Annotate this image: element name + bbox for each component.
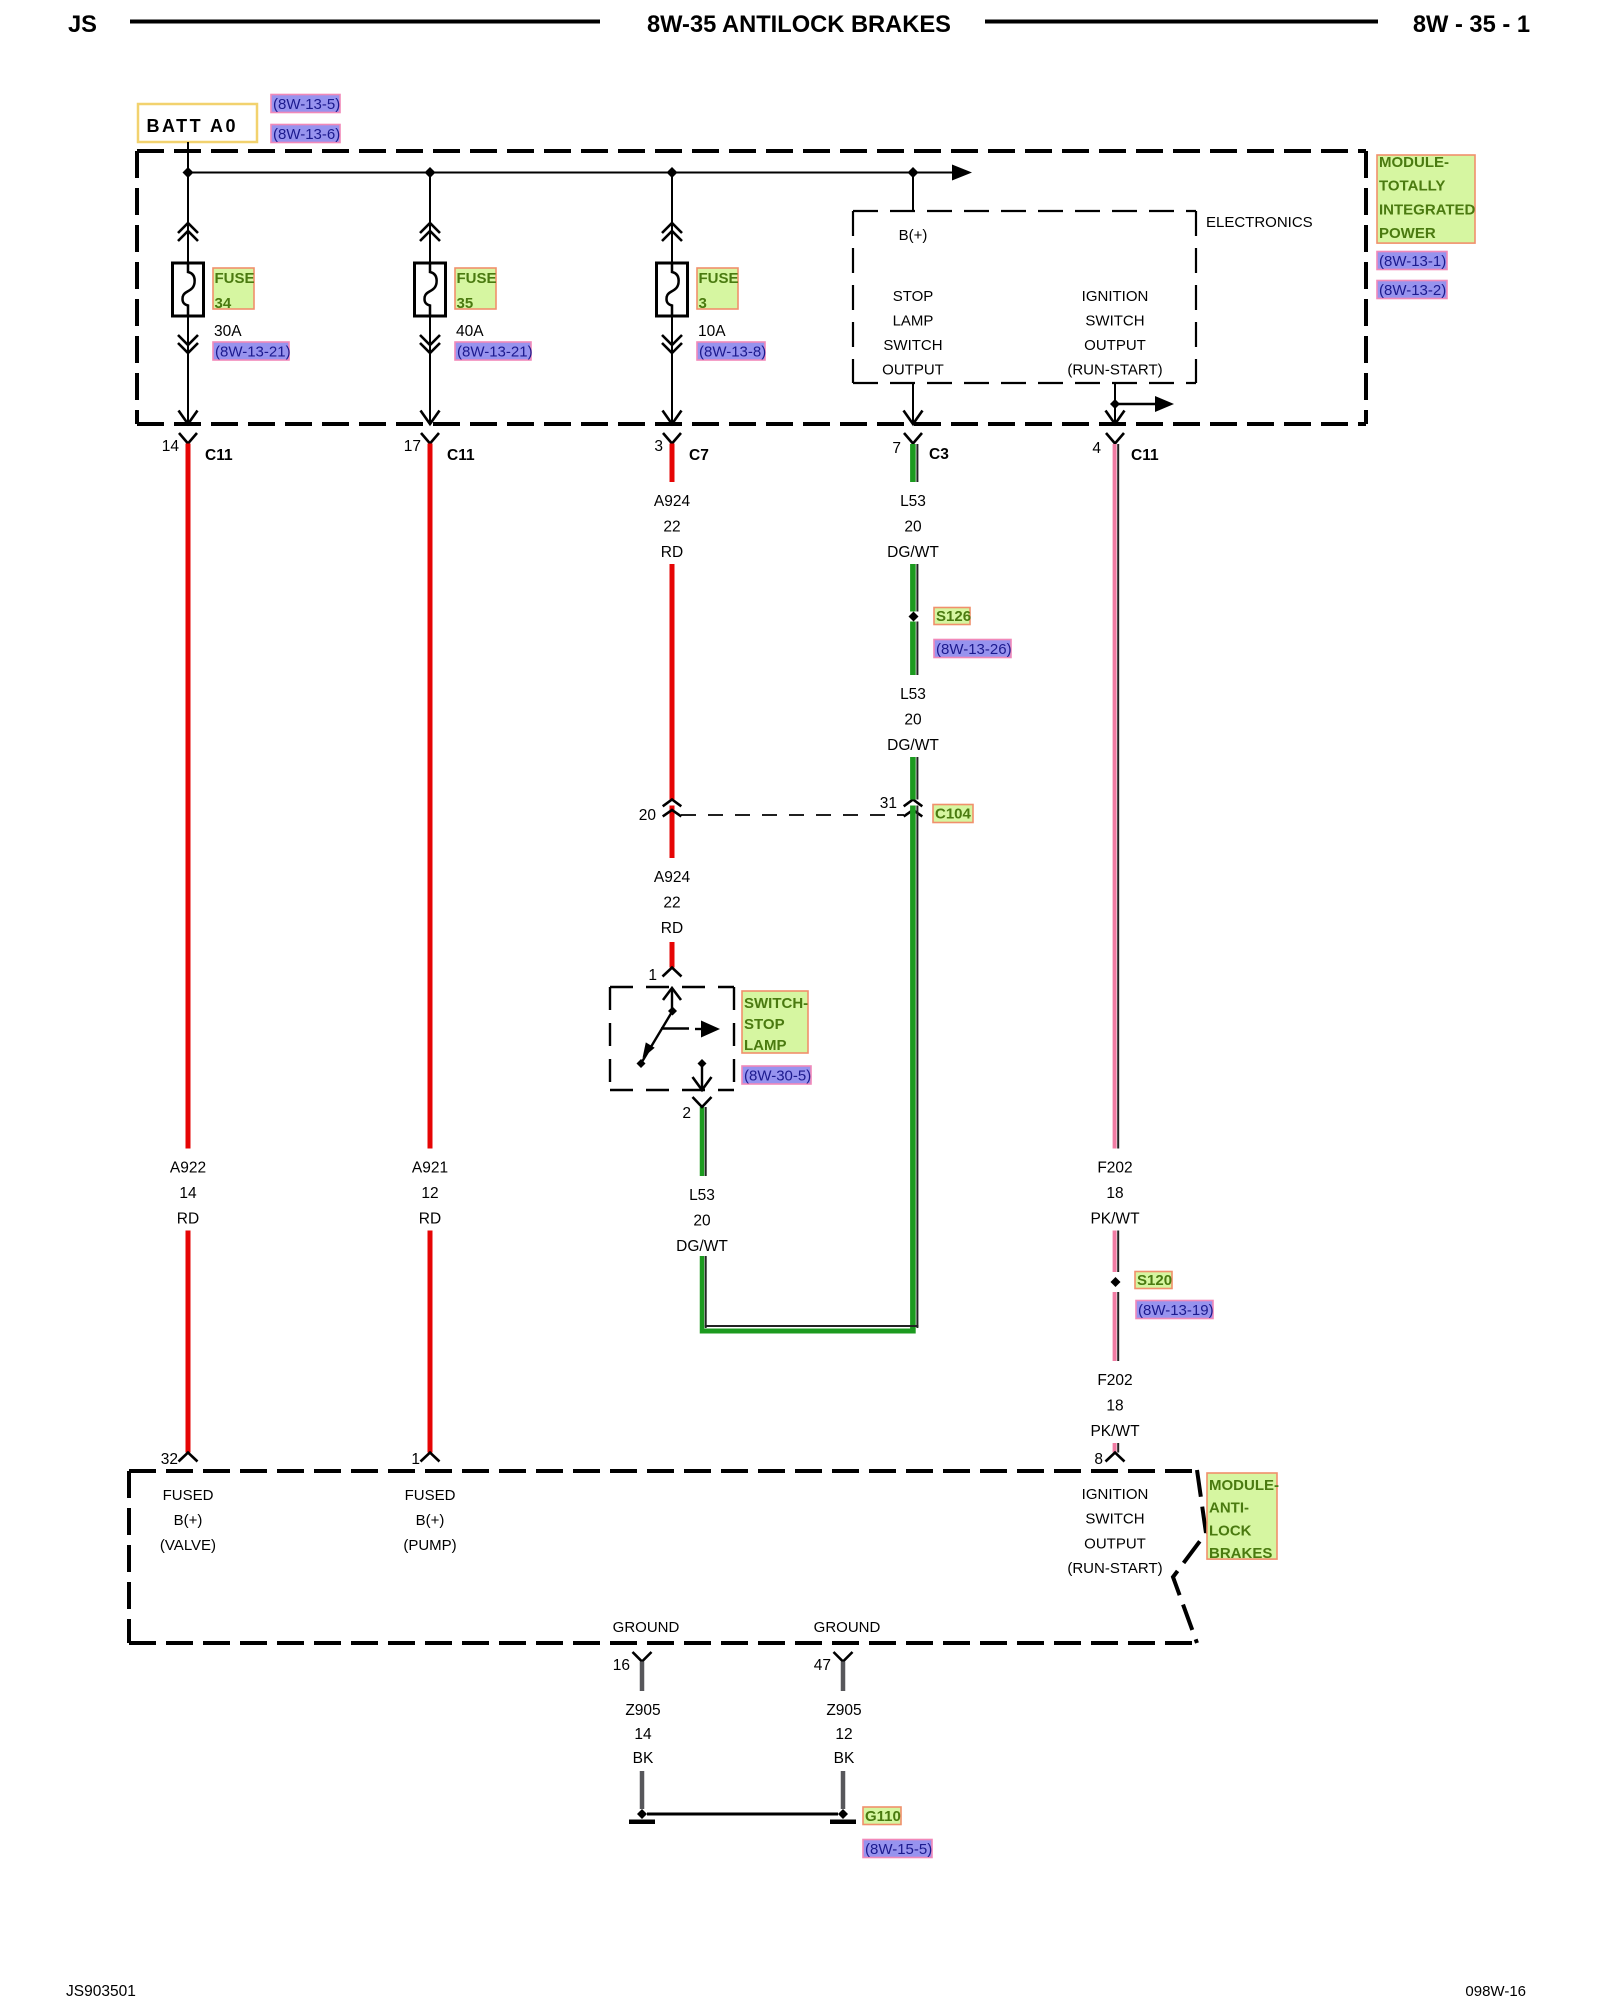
- svg-text:L53: L53: [689, 1187, 715, 1204]
- wire bus to electronics B(+): [912, 173, 914, 212]
- svg-text:MODULE-: MODULE-: [1209, 1477, 1279, 1494]
- svg-text:GROUND: GROUND: [814, 1619, 881, 1636]
- svg-text:RD: RD: [419, 1210, 441, 1227]
- svg-text:IGNITION: IGNITION: [1082, 1486, 1149, 1503]
- svg-text:DG/WT: DG/WT: [887, 544, 939, 561]
- svg-text:8: 8: [1094, 1451, 1103, 1468]
- svg-text:FUSE: FUSE: [699, 270, 739, 287]
- svg-text:C11: C11: [447, 447, 475, 464]
- svg-text:2: 2: [682, 1105, 691, 1122]
- connector pin 1 (ABS): [421, 1453, 440, 1462]
- wire battery to bus: [187, 142, 189, 173]
- label SWITCH-STOP LAMP: [742, 991, 808, 1053]
- svg-text:LOCK: LOCK: [1209, 1522, 1252, 1539]
- svg-text:(8W-15-5): (8W-15-5): [865, 1841, 932, 1858]
- junction node bus/fuse35: [425, 167, 436, 178]
- svg-text:BK: BK: [633, 1750, 654, 1767]
- arrowhead into TIPM edge: [663, 411, 682, 425]
- ground G110 label: [863, 1807, 901, 1825]
- svg-text:8W-35 ANTILOCK BRAKES: 8W-35 ANTILOCK BRAKES: [647, 12, 951, 38]
- svg-text:FUSED: FUSED: [405, 1487, 456, 1504]
- svg-text:20: 20: [693, 1212, 711, 1229]
- ref (8W-30-5): [742, 1066, 811, 1084]
- switch-stop lamp box (dashed): [610, 986, 734, 988]
- switch throw contact (right arrow): [661, 1027, 689, 1029]
- svg-text:RD: RD: [661, 920, 683, 937]
- svg-text:4: 4: [1092, 440, 1101, 457]
- switch contact arrow (common, pin 1): [671, 988, 673, 1008]
- svg-text:(8W-13-2): (8W-13-2): [1379, 282, 1446, 299]
- connector pin 32 (ABS): [179, 1453, 198, 1462]
- svg-text:FUSE: FUSE: [215, 270, 255, 287]
- wire A921 12 RD (fused B+ pump): [428, 444, 433, 1149]
- svg-text:C3: C3: [929, 446, 949, 463]
- switch pivot node: [668, 1007, 677, 1016]
- ground G110 node (right): [838, 1809, 848, 1819]
- svg-text:BK: BK: [834, 1750, 855, 1767]
- connector C3 pin 7: [904, 433, 922, 444]
- svg-text:30A: 30A: [214, 323, 242, 340]
- wire stop lamp switch output to C3: [912, 383, 914, 424]
- svg-text:18: 18: [1106, 1397, 1123, 1414]
- connector C104 label: [933, 805, 973, 823]
- junction node bus/fuse34: [183, 167, 194, 178]
- connector stop lamp switch pin 1: [663, 968, 682, 977]
- arrowhead into TIPM edge: [421, 411, 440, 425]
- svg-text:098W-16: 098W-16: [1465, 1983, 1526, 2000]
- svg-text:ANTI-: ANTI-: [1209, 1500, 1249, 1517]
- svg-text:S126: S126: [936, 608, 971, 625]
- svg-text:1: 1: [411, 1451, 420, 1468]
- splice S126: [909, 612, 919, 622]
- svg-text:OUTPUT: OUTPUT: [882, 362, 944, 379]
- svg-text:17: 17: [404, 438, 421, 455]
- svg-text:F202: F202: [1097, 1160, 1132, 1177]
- svg-text:22: 22: [663, 518, 680, 535]
- connector C11 pin 17: [421, 433, 439, 444]
- svg-text:POWER: POWER: [1379, 225, 1436, 242]
- svg-text:20: 20: [904, 518, 922, 535]
- svg-text:C11: C11: [1131, 447, 1159, 464]
- connector ground pin 47: [834, 1652, 853, 1662]
- svg-text:(8W-30-5): (8W-30-5): [744, 1068, 811, 1085]
- fuse 34 chevrons (bottom): [178, 335, 198, 345]
- fuse 3 out-of-page chevrons (top): [662, 223, 682, 233]
- ref (8W-13-21): [213, 342, 289, 360]
- svg-text:(8W-13-26): (8W-13-26): [936, 641, 1012, 658]
- switch output node to pin 2: [698, 1059, 707, 1068]
- svg-text:LAMP: LAMP: [744, 1037, 787, 1054]
- ref (8W-13-26): [934, 640, 1011, 658]
- svg-text:(8W-13-1): (8W-13-1): [1379, 253, 1446, 270]
- svg-text:F202: F202: [1097, 1372, 1132, 1389]
- ref (8W-13-2): [1377, 281, 1447, 299]
- fuse 34 out-of-page chevrons (top): [178, 223, 198, 233]
- svg-text:18: 18: [1106, 1185, 1123, 1202]
- ground tie wire: [647, 1813, 838, 1816]
- svg-text:14: 14: [162, 438, 180, 455]
- fuse 3 symbol: [657, 263, 688, 316]
- svg-text:35: 35: [457, 295, 474, 312]
- svg-text:SWITCH: SWITCH: [1085, 313, 1144, 330]
- ref (8W-13-5): [271, 95, 340, 113]
- svg-text:47: 47: [814, 1657, 831, 1674]
- svg-text:DG/WT: DG/WT: [887, 737, 939, 754]
- svg-text:OUTPUT: OUTPUT: [1084, 1535, 1146, 1552]
- ground G110 node (left): [637, 1809, 647, 1819]
- connector C104 dashed tie line: [681, 814, 904, 816]
- svg-text:FUSE: FUSE: [457, 270, 497, 287]
- svg-text:12: 12: [421, 1185, 438, 1202]
- svg-text:16: 16: [613, 1657, 630, 1674]
- fuse 34 feed wire: [187, 173, 189, 264]
- wire A922 14 RD (fused B+ valve): [186, 444, 191, 1149]
- svg-text:MODULE-: MODULE-: [1379, 154, 1449, 171]
- svg-text:(RUN-START): (RUN-START): [1067, 1560, 1162, 1577]
- svg-text:B(+): B(+): [899, 227, 928, 244]
- fuse 35 label FUSE 35: [455, 268, 496, 309]
- svg-text:PK/WT: PK/WT: [1090, 1210, 1140, 1227]
- svg-text:SWITCH-: SWITCH-: [744, 995, 808, 1012]
- svg-text:FUSED: FUSED: [163, 1487, 214, 1504]
- svg-text:INTEGRATED: INTEGRATED: [1379, 201, 1476, 218]
- wire A924 22 RD (fuse 3 to stop lamp switch): [670, 444, 675, 483]
- svg-text:G110: G110: [865, 1808, 901, 1825]
- switch blade: [641, 1011, 673, 1064]
- svg-text:(PUMP): (PUMP): [403, 1537, 456, 1554]
- svg-text:12: 12: [835, 1726, 852, 1743]
- connector C11 pin 4: [1106, 433, 1124, 444]
- connector C11 pin 14: [179, 433, 197, 444]
- fuse 34 output wire: [187, 316, 189, 424]
- module ABS outline (dashed): [129, 1469, 1196, 1473]
- splice S120: [1111, 1277, 1121, 1287]
- svg-text:(8W-13-21): (8W-13-21): [215, 344, 291, 361]
- svg-text:(8W-13-8): (8W-13-8): [699, 344, 766, 361]
- svg-text:JS: JS: [68, 12, 97, 38]
- module TIPM outline (dashed): [137, 149, 1366, 153]
- svg-text:Z905: Z905: [625, 1702, 660, 1719]
- ref (8W-13-21): [455, 342, 531, 360]
- svg-text:ELECTRONICS: ELECTRONICS: [1206, 214, 1313, 231]
- svg-text:(8W-13-19): (8W-13-19): [1138, 1302, 1214, 1319]
- svg-text:(8W-13-5): (8W-13-5): [273, 96, 340, 113]
- svg-text:32: 32: [161, 1451, 178, 1468]
- fuse 34 label FUSE 34: [213, 268, 254, 309]
- connector ground pin 16: [633, 1652, 652, 1662]
- svg-text:40A: 40A: [456, 323, 484, 340]
- svg-text:7: 7: [892, 440, 901, 457]
- svg-text:3: 3: [699, 295, 707, 312]
- fuse 35 output wire: [429, 316, 431, 424]
- connector C104 pin 31 chevrons: [904, 800, 923, 807]
- svg-text:C7: C7: [689, 447, 709, 464]
- svg-text:(8W-13-21): (8W-13-21): [457, 344, 533, 361]
- fuse 35 out-of-page chevrons (top): [420, 223, 440, 233]
- ref (8W-13-8): [697, 342, 765, 360]
- svg-text:BATT A0: BATT A0: [147, 116, 239, 136]
- fuse 3 chevrons (bottom): [662, 335, 682, 345]
- wire Z905 12 BK: [841, 1662, 846, 1692]
- svg-text:JS903501: JS903501: [66, 1983, 136, 2000]
- svg-text:10A: 10A: [698, 323, 726, 340]
- arrowhead into TIPM edge: [179, 411, 198, 425]
- svg-text:34: 34: [215, 295, 232, 312]
- svg-text:A922: A922: [170, 1160, 206, 1177]
- svg-text:(RUN-START): (RUN-START): [1067, 362, 1162, 379]
- label MODULE-ANTI-LOCK BRAKES: [1207, 1473, 1277, 1559]
- connector C104 pin 20 chevrons: [663, 800, 682, 807]
- ref (8W-13-6): [271, 125, 340, 143]
- svg-text:14: 14: [634, 1726, 652, 1743]
- svg-text:20: 20: [904, 711, 922, 728]
- fuse 35 chevrons (bottom): [420, 335, 440, 345]
- svg-text:(VALVE): (VALVE): [160, 1537, 216, 1554]
- TIPM electronics inner box (dashed): [853, 210, 1196, 212]
- ref (8W-13-1): [1377, 252, 1447, 270]
- junction ignition output branch: [1110, 399, 1120, 409]
- svg-text:LAMP: LAMP: [893, 313, 934, 330]
- svg-text:DG/WT: DG/WT: [676, 1238, 728, 1255]
- connector pin 8 (ABS): [1106, 1453, 1125, 1462]
- svg-text:STOP: STOP: [893, 288, 934, 305]
- svg-text:B(+): B(+): [174, 1512, 203, 1529]
- svg-text:20: 20: [639, 807, 657, 824]
- svg-text:31: 31: [880, 795, 897, 812]
- svg-text:L53: L53: [900, 686, 926, 703]
- svg-text:IGNITION: IGNITION: [1082, 288, 1149, 305]
- svg-text:A924: A924: [654, 493, 691, 510]
- svg-text:(8W-13-6): (8W-13-6): [273, 126, 340, 143]
- svg-text:Z905: Z905: [826, 1702, 861, 1719]
- fuse 3 output wire: [671, 316, 673, 424]
- connector C7 pin 3: [663, 433, 681, 444]
- svg-text:C104: C104: [935, 806, 972, 823]
- ref (8W-15-5): [863, 1840, 932, 1858]
- wire L53 20 DG/WT (switch leg): [700, 1107, 705, 1176]
- svg-text:14: 14: [179, 1185, 197, 1202]
- junction node bus/fuse3: [667, 167, 678, 178]
- svg-text:SWITCH: SWITCH: [1085, 1511, 1144, 1528]
- wire L53 horizontal run: [700, 1329, 915, 1334]
- svg-text:L53: L53: [900, 493, 926, 510]
- module ABS torn right edge: [1173, 1470, 1206, 1643]
- label MODULE-TOTALLY INTEGRATED POWER: [1377, 155, 1475, 243]
- svg-text:C11: C11: [205, 447, 233, 464]
- svg-text:3: 3: [654, 438, 663, 455]
- svg-text:A924: A924: [654, 869, 691, 886]
- svg-text:SWITCH: SWITCH: [883, 337, 942, 354]
- svg-text:TOTALLY: TOTALLY: [1379, 178, 1445, 195]
- svg-text:RD: RD: [177, 1210, 199, 1227]
- fuse 35 symbol: [415, 263, 446, 316]
- bus wire B+ inside TIPM: [188, 172, 953, 174]
- fuse 34 symbol: [173, 263, 204, 316]
- svg-text:8W - 35 - 1: 8W - 35 - 1: [1413, 12, 1530, 38]
- connector stop lamp switch pin 2: [693, 1097, 712, 1107]
- svg-text:A921: A921: [412, 1160, 448, 1177]
- svg-text:RD: RD: [661, 544, 683, 561]
- ref (8W-13-19): [1136, 1301, 1213, 1319]
- svg-text:PK/WT: PK/WT: [1090, 1423, 1140, 1440]
- wire Z905 14 BK: [640, 1662, 645, 1692]
- svg-text:OUTPUT: OUTPUT: [1084, 337, 1146, 354]
- svg-text:B(+): B(+): [416, 1512, 445, 1529]
- wire F202 18 PK/WT (ignition run-start to ABS): [1113, 444, 1117, 1149]
- svg-text:22: 22: [663, 894, 680, 911]
- svg-text:GROUND: GROUND: [613, 1619, 680, 1636]
- svg-text:STOP: STOP: [744, 1016, 785, 1033]
- wire L53 20 DG/WT (C3 to C104 to switch): [910, 444, 916, 482]
- battery feed BATT A0: [138, 104, 257, 142]
- svg-text:S120: S120: [1137, 1272, 1172, 1289]
- svg-text:1: 1: [648, 967, 657, 984]
- wire ignition switch output to C11: [1114, 383, 1116, 424]
- fuse 3 label FUSE 3: [697, 268, 738, 309]
- junction node bus/electronics: [908, 167, 919, 178]
- fuse 35 feed wire: [429, 173, 431, 264]
- svg-text:BRAKES: BRAKES: [1209, 1545, 1272, 1562]
- fuse 3 feed wire: [671, 173, 673, 264]
